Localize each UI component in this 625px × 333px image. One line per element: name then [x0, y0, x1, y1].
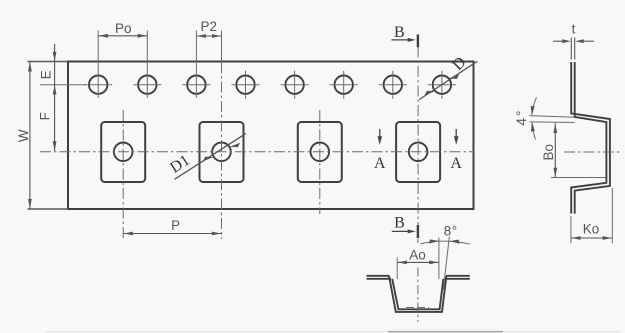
scan streak artifact bottom	[45, 331, 620, 333]
svg-text:8°: 8°	[444, 223, 458, 238]
svg-text:Ao: Ao	[409, 248, 426, 263]
svg-text:A: A	[374, 155, 386, 172]
dimension P	[123, 233, 221, 235]
svg-text:B: B	[394, 24, 405, 41]
node: sprocket holes row	[89, 76, 451, 94]
wire: pocket vertical centerlines	[123, 47, 418, 240]
dimension W	[29, 62, 31, 210]
wire: hole extension lines from Po/P2	[98, 31, 221, 98]
pocket section inner	[392, 279, 443, 310]
svg-text:F: F	[38, 112, 53, 120]
dimension Bo	[554, 123, 556, 177]
dimension Ao	[397, 238, 439, 280]
svg-text:Po: Po	[115, 21, 132, 36]
wire: sprocket centerline extension left	[40, 84, 86, 86]
dimension t	[553, 38, 594, 60]
svg-text:Bo: Bo	[541, 144, 556, 161]
svg-text:P: P	[171, 218, 180, 233]
side profile outer line	[571, 62, 610, 214]
dimension E / F line	[54, 44, 56, 151]
svg-text:D1: D1	[167, 152, 193, 177]
wire: side view centerline	[564, 151, 623, 153]
dimension Po	[98, 35, 147, 37]
svg-text:4°: 4°	[514, 109, 529, 126]
svg-text:A: A	[450, 155, 462, 172]
svg-text:W: W	[16, 129, 31, 142]
node: pockets	[101, 122, 440, 182]
dimension 8 degrees	[421, 237, 471, 291]
section flange right	[446, 275, 470, 277]
wire: horizontal centerline of pockets	[40, 151, 474, 153]
svg-text:t: t	[572, 21, 576, 36]
wire: Bo bottom extension	[551, 177, 606, 179]
wire: bottom edge extension left	[28, 208, 69, 210]
dimension P2	[196, 35, 221, 37]
section arrows A-A	[379, 129, 381, 139]
node: hole crosshairs	[84, 71, 456, 99]
section flange left	[367, 275, 390, 277]
tape outline	[68, 62, 474, 210]
wire: top edge extension left	[28, 61, 69, 63]
svg-text:B: B	[394, 214, 405, 231]
svg-text:Ko: Ko	[583, 222, 600, 237]
dimension 4 degrees	[530, 98, 575, 140]
dimension Ko	[571, 188, 612, 243]
leader D1	[175, 134, 246, 180]
side profile inner line	[571, 62, 606, 214]
pocket section outer	[389, 276, 446, 312]
leader D	[419, 61, 477, 99]
wire: inner bottom dashed	[406, 307, 429, 309]
svg-text:D: D	[449, 54, 469, 74]
node: pocket circles	[114, 143, 428, 162]
svg-text:E: E	[38, 70, 53, 79]
svg-text:P2: P2	[200, 19, 217, 34]
wire: section centerline	[417, 239, 419, 243]
